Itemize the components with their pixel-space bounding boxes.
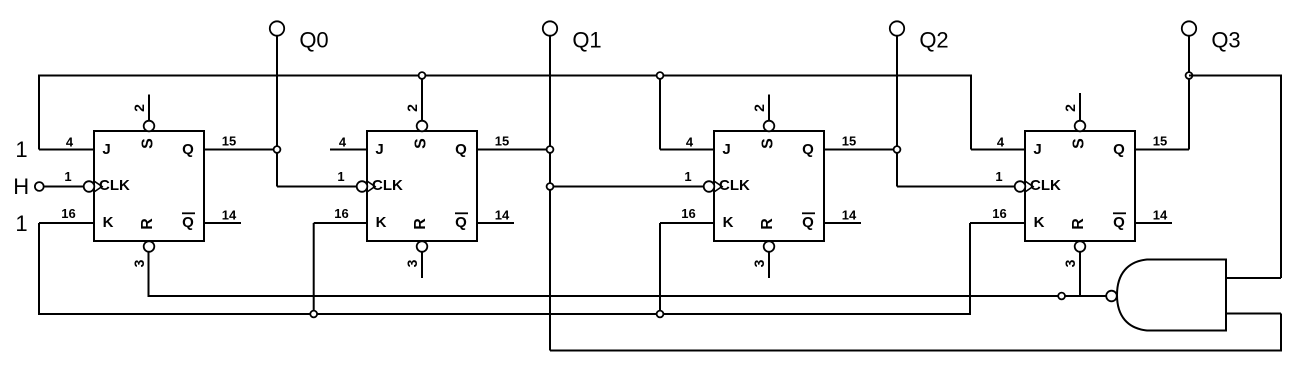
U4 S bubble (preset) [1075, 121, 1086, 132]
wire U4 Q output [1135, 149, 1189, 151]
svg-text:1: 1 [15, 211, 27, 236]
svg-text:R: R [139, 218, 156, 230]
svg-text:14: 14 [1153, 208, 1168, 223]
output terminal Q3 [1182, 21, 1196, 35]
svg-text:1: 1 [15, 137, 27, 162]
junction Q1/U3 CLK [547, 183, 554, 190]
wire U3 K input [660, 222, 714, 224]
svg-text:16: 16 [61, 206, 75, 221]
wire K chain horizontal [39, 313, 970, 315]
svg-text:14: 14 [842, 208, 857, 223]
wire U1 R down [148, 252, 150, 298]
U4 S stub wire [1079, 93, 1081, 121]
U1 CLK bubble [84, 181, 95, 192]
svg-text:J: J [102, 141, 110, 158]
svg-text:1: 1 [64, 169, 71, 184]
svg-text:S: S [760, 138, 777, 149]
wire top feedback down to U4 J [970, 75, 972, 150]
U3 S bubble (preset) [764, 121, 775, 132]
wire top feedback down to U2 S [421, 76, 423, 122]
svg-text:15: 15 [842, 134, 856, 149]
output terminal Q1 [543, 21, 557, 35]
wire U4 K input [970, 222, 1025, 224]
svg-text:CLK: CLK [99, 177, 130, 194]
U1 Qbar stub wire [204, 222, 241, 224]
input terminal H [35, 182, 44, 191]
output terminal Q0 [270, 21, 284, 35]
wire gate input B [1226, 313, 1281, 315]
wire U1 Q output [204, 149, 277, 151]
svg-text:CLK: CLK [1030, 177, 1061, 194]
wire Q3 top right horizontal [1189, 75, 1281, 77]
U3 clock triangle [714, 181, 722, 192]
wire U2 Q output [477, 149, 550, 151]
wire Q2 to U4 CLK [897, 186, 1015, 188]
U2 R bubble (clear) [417, 241, 428, 252]
svg-text:15: 15 [1153, 134, 1167, 149]
svg-text:R: R [1070, 218, 1087, 230]
U2 S bubble (preset) [417, 121, 428, 132]
wire reset chain horizontal [149, 295, 1107, 297]
wire U4 J input [971, 149, 1025, 151]
wire U1 K down [38, 223, 40, 315]
wire U4 R down [1079, 252, 1081, 297]
svg-text:3: 3 [131, 259, 147, 267]
svg-text:Q: Q [1113, 214, 1125, 231]
wire Q3 down to gate input A [1280, 75, 1282, 279]
wire U1 K input [39, 222, 94, 224]
U4 Qbar stub wire [1135, 222, 1172, 224]
svg-text:4: 4 [686, 135, 694, 150]
svg-text:14: 14 [495, 208, 510, 223]
U3 S stub wire [768, 95, 770, 122]
wire U3 K down [659, 223, 661, 314]
svg-text:4: 4 [66, 135, 74, 150]
wire Q1 bottom horizontal [550, 350, 1281, 352]
svg-text:1: 1 [337, 169, 344, 184]
junction top/U3 J [657, 72, 664, 79]
wire Q1 up to gate input B [1280, 314, 1282, 352]
U4 clock triangle [1025, 181, 1033, 192]
svg-text:Q: Q [455, 141, 467, 158]
wire U3 J input [660, 149, 714, 151]
svg-text:3: 3 [751, 259, 767, 267]
U1 S stub wire [148, 95, 150, 122]
svg-text:2: 2 [1062, 104, 1078, 112]
U2 clock triangle [367, 181, 375, 192]
svg-text:Q1: Q1 [572, 28, 601, 53]
svg-text:K: K [723, 214, 734, 231]
wire Q0 vertical [276, 36, 278, 187]
svg-text:R: R [412, 218, 429, 230]
junction Q3/top right [1186, 72, 1193, 79]
wire U4 K down [969, 223, 971, 315]
junction Q2/U3 Q [894, 146, 901, 153]
U3 R bubble (clear) [764, 241, 775, 252]
U3 CLK bubble [704, 181, 715, 192]
JK flip-flop U4 box [1025, 131, 1135, 241]
wire U2 K input [314, 222, 367, 224]
wire top feedback horizontal [39, 75, 971, 77]
svg-text:3: 3 [404, 259, 420, 267]
JK flip-flop U3 box [714, 131, 824, 241]
U2 Qbar stub wire [477, 222, 514, 224]
svg-text:Q: Q [802, 214, 814, 231]
svg-text:S: S [140, 138, 157, 149]
svg-text:Q: Q [182, 141, 194, 158]
svg-text:K: K [376, 214, 387, 231]
svg-text:CLK: CLK [372, 177, 403, 194]
svg-text:Q2: Q2 [919, 28, 948, 53]
svg-text:J: J [722, 141, 730, 158]
svg-text:H: H [13, 174, 29, 199]
wire top feedback down to U1 J [38, 75, 40, 150]
U3 Qbar stub wire [824, 222, 861, 224]
wire Q0 to U2 CLK [277, 186, 357, 188]
wire Q1 to U3 CLK [550, 186, 704, 188]
U4 R bubble (clear) [1075, 241, 1086, 252]
svg-text:14: 14 [222, 208, 237, 223]
wire H to U1 CLK [44, 186, 84, 188]
junction K chain/U2 [310, 311, 317, 318]
JK flip-flop U2 box [367, 131, 477, 241]
svg-text:Q: Q [182, 214, 194, 231]
U1 R bubble (clear) [144, 241, 155, 252]
NAND gate U5 output bubble [1106, 291, 1117, 302]
svg-text:1: 1 [684, 169, 691, 184]
svg-text:K: K [103, 214, 114, 231]
svg-text:S: S [413, 138, 430, 149]
JK flip-flop U1 box [94, 131, 204, 241]
svg-text:4: 4 [997, 135, 1005, 150]
svg-text:Q: Q [1113, 141, 1125, 158]
U1 clock triangle [94, 181, 102, 192]
junction Q0/U1 Q [274, 146, 281, 153]
svg-text:K: K [1034, 214, 1045, 231]
U2 CLK bubble [357, 181, 368, 192]
U1 S bubble (preset) [144, 121, 155, 132]
wire Q1 vertical [549, 36, 551, 351]
svg-text:Q3: Q3 [1211, 28, 1240, 53]
svg-text:S: S [1071, 138, 1088, 149]
svg-text:2: 2 [404, 104, 420, 112]
U3 R stub wire [768, 252, 770, 278]
svg-text:2: 2 [751, 104, 767, 112]
svg-text:CLK: CLK [719, 177, 750, 194]
svg-text:Q0: Q0 [299, 28, 328, 53]
junction reset chain [1058, 293, 1065, 300]
svg-text:15: 15 [495, 134, 509, 149]
U2 R stub wire [421, 252, 423, 278]
NAND gate U5 body (mirrored, inputs right) [1117, 260, 1226, 331]
svg-text:J: J [375, 141, 383, 158]
wire top feedback down to U3 J [659, 76, 661, 150]
wire Q2 vertical [896, 36, 898, 187]
junction Q1/U2 Q [547, 146, 554, 153]
wire U2 K down [313, 223, 315, 314]
wire gate input A [1226, 277, 1281, 279]
wire U1 J input [39, 149, 94, 151]
svg-text:Q: Q [802, 141, 814, 158]
svg-text:16: 16 [681, 206, 695, 221]
U4 CLK bubble [1015, 181, 1026, 192]
junction K chain/U3 [657, 311, 664, 318]
svg-text:16: 16 [334, 206, 348, 221]
U2 J stub wire [330, 149, 367, 151]
svg-text:4: 4 [339, 135, 347, 150]
output terminal Q2 [890, 21, 904, 35]
svg-text:1: 1 [995, 169, 1002, 184]
svg-text:Q: Q [455, 214, 467, 231]
wire U3 Q output [824, 149, 897, 151]
svg-text:15: 15 [222, 134, 236, 149]
svg-text:R: R [759, 218, 776, 230]
svg-text:J: J [1033, 141, 1041, 158]
junction top/U2 S [419, 72, 426, 79]
wire Q3 vertical [1188, 36, 1190, 150]
svg-text:3: 3 [1062, 259, 1078, 267]
svg-text:16: 16 [992, 206, 1006, 221]
svg-text:2: 2 [131, 104, 147, 112]
